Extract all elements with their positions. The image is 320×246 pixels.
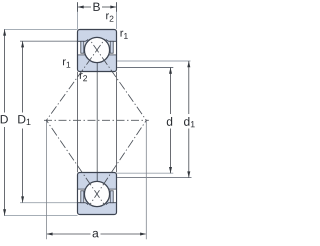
label D1 xyxy=(18,115,30,125)
contact line from right vertex through top ball xyxy=(89,39,146,120)
extension line a left (from left contact vertex) xyxy=(45,120,47,239)
outer ring bore line left (bottom) xyxy=(78,203,89,205)
arrow d bottom xyxy=(169,167,172,173)
extension line d bottom xyxy=(117,172,173,174)
extension line d top xyxy=(117,67,173,69)
label r1 left xyxy=(63,59,70,67)
label r1 top right xyxy=(121,31,128,39)
gap between rings left xyxy=(78,41,85,55)
outer ring bore line right xyxy=(106,39,117,41)
wire: left vertical connector between sections xyxy=(77,72,79,173)
dimension D1 xyxy=(22,41,24,202)
label B xyxy=(93,3,99,11)
extension line D1 top xyxy=(20,40,78,42)
label a xyxy=(93,231,99,238)
extension line B right xyxy=(116,2,118,29)
label r2 top xyxy=(106,13,113,21)
bottom bearing cross-section (mirror of top) xyxy=(78,173,117,215)
outer ring land tab left xyxy=(81,41,84,53)
contact line from right vertex through bottom ball xyxy=(90,120,147,205)
wire: right vertical connector between sections xyxy=(116,72,118,173)
extension line d1 bottom xyxy=(117,177,191,179)
ball top section xyxy=(84,37,109,62)
arrow d1 top xyxy=(187,61,190,67)
outer ring bore line right (bottom) xyxy=(106,203,117,205)
arrow D top xyxy=(3,29,6,35)
outer ring land tab right (bottom) xyxy=(110,191,113,203)
label D xyxy=(1,115,8,123)
dimension d1 xyxy=(188,61,190,178)
arrow D1 top xyxy=(21,41,24,47)
extension line D bottom xyxy=(4,215,78,217)
ring body top section xyxy=(78,30,117,72)
label d1 xyxy=(184,117,195,127)
ball bottom section xyxy=(84,181,109,206)
gap between rings right (bottom) xyxy=(109,189,116,203)
extension line D top xyxy=(4,28,78,30)
outer ring land tab right xyxy=(110,41,113,53)
label d xyxy=(167,117,172,126)
inner ring shoulder line left (bottom) xyxy=(78,188,86,190)
horizontal centerline (bearing axis) xyxy=(44,119,149,121)
arrow d1 bottom xyxy=(187,171,190,177)
contact line from left vertex through bottom ball xyxy=(46,120,104,205)
dimension B xyxy=(78,2,117,11)
arrow D bottom xyxy=(3,209,6,215)
arrow B right xyxy=(110,6,116,9)
inner ring split line bottom section xyxy=(96,173,98,182)
arrow a right xyxy=(140,233,146,236)
inner ring split line top section xyxy=(96,63,98,72)
inner ring shoulder line left xyxy=(78,54,86,56)
contact line from left vertex through top ball xyxy=(46,39,105,120)
outer ring land tab left (bottom) xyxy=(81,191,84,203)
extension line D1 bottom xyxy=(20,202,78,204)
arrow a left xyxy=(46,233,52,236)
extension line a right (from right contact vertex) xyxy=(145,120,147,239)
dimension d xyxy=(170,68,172,174)
dimension a xyxy=(47,233,145,235)
extension line B left xyxy=(77,2,79,29)
dimension D xyxy=(4,29,6,215)
wire: center vertical connector between sections xyxy=(96,72,98,173)
gap between rings right xyxy=(109,41,116,55)
gap between rings left (bottom) xyxy=(78,189,85,203)
inner ring shoulder line right (bottom) xyxy=(109,188,117,190)
ring body bottom section xyxy=(78,173,117,215)
arrow B left xyxy=(78,6,84,9)
extension line d1 top xyxy=(117,60,190,62)
outer ring bore line left xyxy=(78,39,89,41)
top bearing cross-section xyxy=(78,30,117,72)
arrow D1 bottom xyxy=(21,196,24,202)
inner ring shoulder line right xyxy=(109,54,117,56)
arrow d top xyxy=(169,68,172,74)
label r2 left bottom xyxy=(80,73,87,81)
